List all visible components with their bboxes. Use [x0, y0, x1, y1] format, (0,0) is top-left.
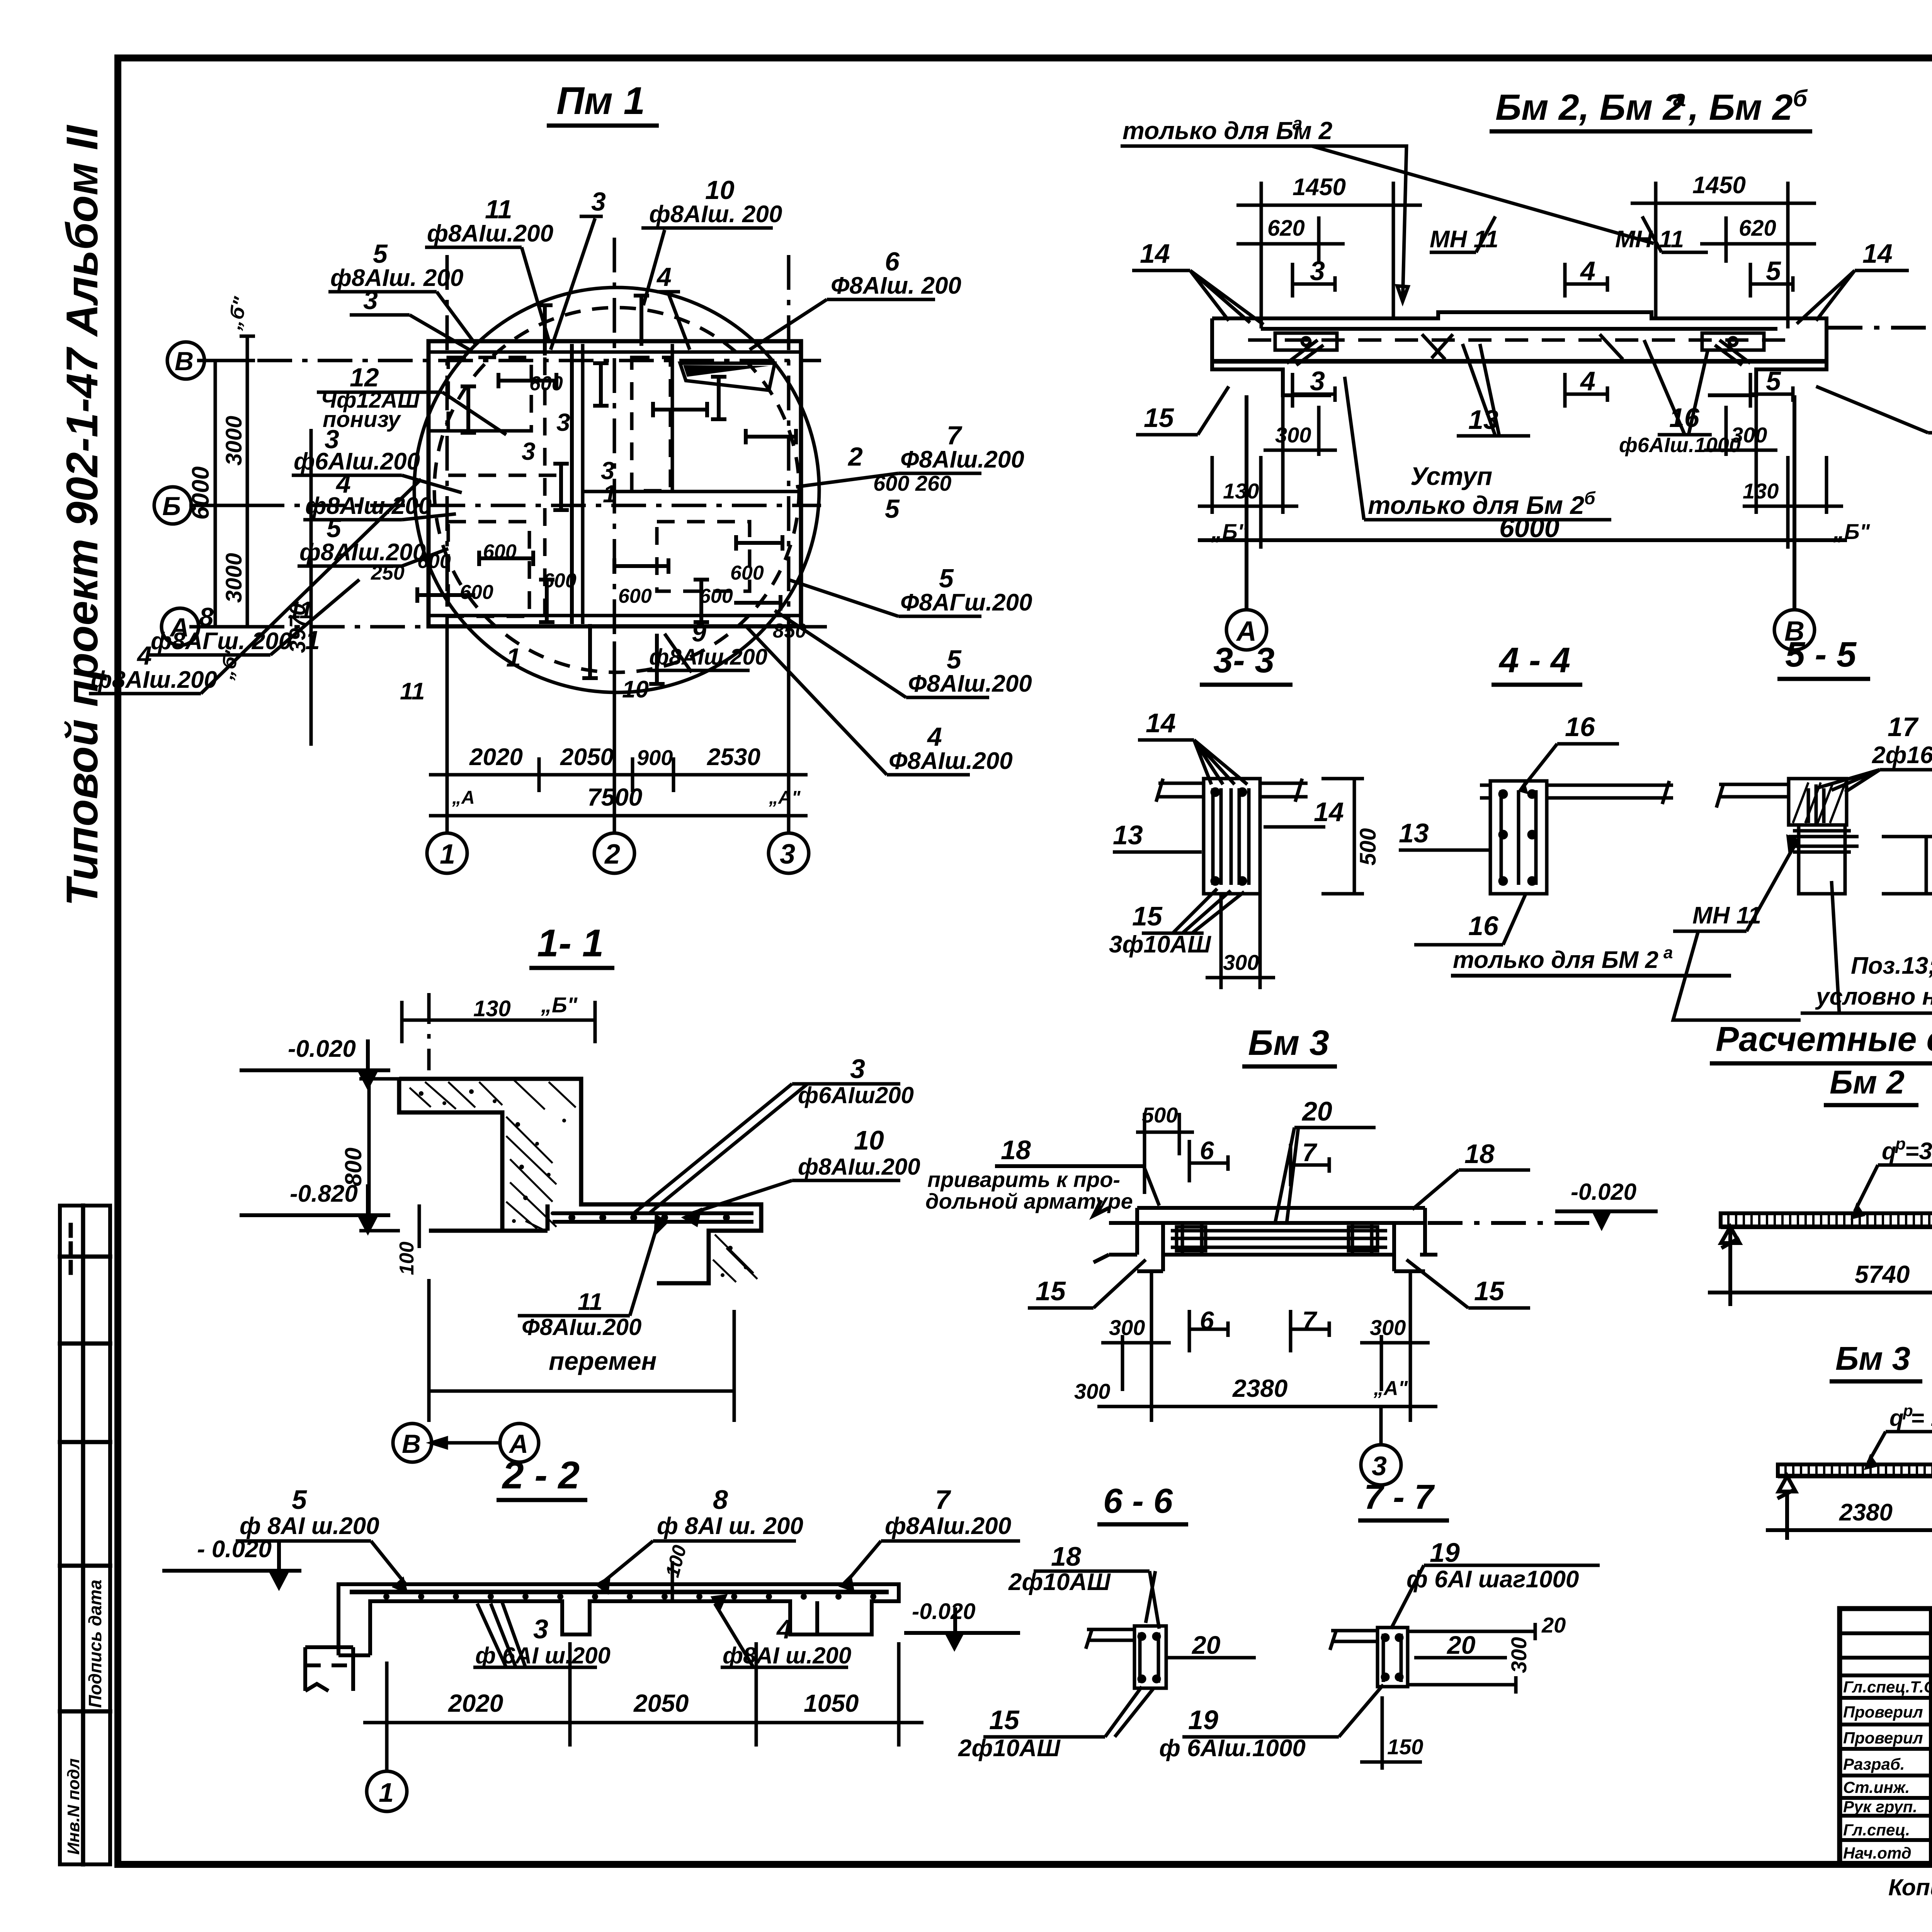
svg-text:3: 3 [522, 437, 536, 465]
svg-text:ф6АIш.1000: ф6АIш.1000 [1619, 434, 1741, 457]
svg-text:3: 3 [591, 187, 606, 216]
title block [1840, 1609, 1932, 1866]
svg-text:6: 6 [1200, 1136, 1214, 1165]
supports [1708, 1227, 1932, 1306]
svg-text:5 - 5: 5 - 5 [1785, 635, 1857, 674]
svg-text:=3,08т/пм.: =3,08т/пм. [1905, 1138, 1932, 1165]
svg-text:5: 5 [939, 564, 954, 593]
svg-text:4 - 4: 4 - 4 [1498, 641, 1570, 680]
svg-text:11: 11 [578, 1289, 602, 1315]
small pit box left [305, 1647, 353, 1691]
svg-text:5740: 5740 [1855, 1260, 1910, 1288]
svg-text:2ф10АШ: 2ф10АШ [958, 1735, 1061, 1762]
svg-text:7: 7 [1302, 1306, 1318, 1335]
svg-text:6 - 6: 6 - 6 [1103, 1482, 1173, 1520]
svg-text:15: 15 [1132, 901, 1163, 931]
svg-text:Гл.спец.: Гл.спец. [1843, 1821, 1910, 1839]
wall profile [399, 1079, 761, 1283]
svg-text:„А": „А" [1373, 1377, 1408, 1400]
svg-text:Инв.N подл: Инв.N подл [64, 1759, 83, 1855]
svg-text:ф6АIш.200: ф6АIш.200 [294, 448, 420, 475]
svg-text:2050: 2050 [633, 1689, 689, 1717]
svg-text:ф8АIш. 200: ф8АIш. 200 [649, 201, 782, 228]
dims [359, 1079, 419, 1248]
svg-text:13: 13 [1113, 820, 1143, 850]
svg-text:1: 1 [506, 643, 521, 672]
plan slab rect [429, 341, 801, 626]
svg-text:Нач.отд: Нач.отд [1843, 1844, 1912, 1862]
svg-text:5: 5 [292, 1485, 307, 1515]
svg-text:130: 130 [473, 996, 511, 1021]
svg-text:16: 16 [1565, 712, 1595, 742]
axis bubbles [154, 342, 809, 873]
svg-text:1: 1 [440, 839, 455, 870]
svg-text:14: 14 [1146, 708, 1176, 738]
svg-text:600: 600 [460, 581, 493, 604]
svg-text:18: 18 [1464, 1139, 1495, 1169]
svg-text:2 - 2: 2 - 2 [502, 1454, 580, 1497]
svg-text:Б: Б [162, 492, 181, 521]
svg-text:3: 3 [1310, 256, 1325, 286]
6000 dim [1198, 395, 1847, 610]
svg-text:р: р [1895, 1134, 1906, 1153]
svg-text:перемен: перемен [549, 1347, 656, 1375]
svg-text:ф8АIш.200: ф8АIш.200 [427, 220, 553, 247]
svg-text:4: 4 [776, 1614, 792, 1644]
svg-text:600: 600 [483, 541, 517, 563]
svg-text:В: В [175, 347, 194, 376]
svg-text:2380: 2380 [1232, 1374, 1287, 1402]
svg-text:7: 7 [947, 421, 963, 450]
svg-text:а: а [1293, 113, 1303, 133]
svg-text:Рук груп.: Рук груп. [1843, 1798, 1917, 1816]
300/130 dims [1198, 395, 1843, 549]
svg-text:5: 5 [1766, 366, 1781, 396]
svg-text:20: 20 [1446, 1631, 1476, 1659]
leader lines [89, 216, 989, 775]
svg-text:Бм 3: Бм 3 [1835, 1340, 1910, 1377]
svg-text:800: 800 [340, 1148, 366, 1186]
svg-text:18: 18 [1051, 1541, 1081, 1571]
svg-text:3: 3 [363, 286, 378, 315]
svg-text:7500: 7500 [587, 783, 642, 811]
inner dashed circle [434, 308, 799, 672]
svg-text:6: 6 [1200, 1306, 1214, 1335]
svg-text:4: 4 [927, 722, 942, 752]
section flags [1293, 263, 1793, 408]
svg-text:300: 300 [1109, 1315, 1145, 1340]
svg-text:1- 1: 1- 1 [537, 922, 604, 965]
svg-text:20: 20 [1191, 1631, 1221, 1659]
svg-text:600: 600 [730, 562, 764, 584]
svg-text:2020: 2020 [469, 744, 523, 770]
svg-text:15: 15 [1474, 1276, 1505, 1306]
dims [363, 1642, 923, 1770]
svg-text:ф8АIш.200: ф8АIш.200 [305, 493, 432, 519]
svg-text:6000: 6000 [1499, 513, 1560, 543]
svg-text:-0.020: -0.020 [288, 1036, 356, 1062]
axis lines dash-dot [189, 238, 827, 835]
5-5 [1716, 779, 1859, 894]
svg-text:300: 300 [1507, 1637, 1531, 1673]
svg-text:620: 620 [1267, 216, 1305, 241]
svg-text:ф 6АIш.1000: ф 6АIш.1000 [1159, 1735, 1306, 1762]
svg-text:600: 600 [543, 570, 577, 592]
svg-text:4: 4 [1580, 366, 1595, 396]
svg-text:3- 3: 3- 3 [1213, 641, 1275, 680]
section 2-2 [162, 1454, 1020, 1811]
svg-text:850: 850 [773, 620, 806, 642]
svg-text:15: 15 [989, 1705, 1020, 1735]
svg-text:5: 5 [373, 239, 388, 269]
svg-text:Ф8АIш.200: Ф8АIш.200 [900, 446, 1024, 473]
svg-text:ф 8АI ш. 200: ф 8АI ш. 200 [657, 1513, 803, 1539]
svg-text:600: 600 [529, 372, 563, 395]
svg-text:15: 15 [1144, 403, 1174, 433]
left dimension lines [207, 336, 311, 746]
svg-text:14: 14 [1140, 238, 1170, 269]
svg-text:Ф8АIш. 200: Ф8АIш. 200 [831, 272, 961, 299]
svg-text:5: 5 [1766, 256, 1781, 286]
svg-text:только для БМ 2: только для БМ 2 [1453, 947, 1658, 973]
bottom dimension lines [429, 641, 808, 833]
svg-text:3000: 3000 [221, 416, 247, 466]
svg-text:б: б [1584, 488, 1596, 508]
beam Bm3 detail [925, 1023, 1658, 1485]
svg-text:2020: 2020 [448, 1689, 503, 1717]
beam Bm2 elevation [1121, 85, 1932, 650]
svg-text:300: 300 [1275, 423, 1311, 447]
load strip [1721, 1213, 1932, 1227]
svg-text:2050: 2050 [560, 744, 614, 770]
svg-text:Подпись дата: Подпись дата [85, 1580, 105, 1708]
svg-text:б: б [1793, 85, 1808, 111]
svg-text:Расчетные схемы: Расчетные схемы [1716, 1020, 1932, 1059]
svg-text:4: 4 [1580, 256, 1595, 286]
svg-text:500: 500 [1142, 1103, 1178, 1127]
svg-text:ф8АIш.200: ф8АIш.200 [649, 645, 767, 670]
svg-text:1: 1 [379, 1777, 394, 1808]
svg-text:3: 3 [850, 1054, 865, 1084]
interior walls [570, 344, 574, 624]
small 600 dims inside [371, 372, 806, 642]
axis bubbles [1226, 610, 1815, 650]
svg-text:19: 19 [1188, 1705, 1218, 1735]
svg-text:Бм 3: Бм 3 [1248, 1023, 1329, 1063]
3-3 [1156, 779, 1308, 894]
svg-text:2ф16АI: 2ф16АI [1872, 742, 1932, 769]
svg-text:10: 10 [622, 676, 649, 703]
svg-text:100: 100 [396, 1242, 418, 1275]
svg-text:500: 500 [1355, 828, 1381, 866]
dimensions 1450/620 left [1236, 182, 1816, 328]
svg-text:ф8АIш. 200: ф8АIш. 200 [330, 265, 463, 291]
svg-text:Проверил: Проверил [1843, 1729, 1923, 1747]
svg-text:ф8АIш.200: ф8АIш.200 [885, 1513, 1011, 1539]
hatched wedge upper right [680, 363, 775, 390]
svg-text:ф6АIш200: ф6АIш200 [798, 1082, 914, 1108]
svg-text:300: 300 [1928, 849, 1932, 885]
svg-text:ф8АIш.200: ф8АIш.200 [91, 667, 217, 693]
svg-text:130: 130 [1223, 479, 1259, 503]
svg-text:Бм 2, Бм 2: Бм 2, Бм 2 [1495, 87, 1683, 128]
svg-text:ф 6АI шаг1000: ф 6АI шаг1000 [1406, 1566, 1579, 1593]
svg-text:10: 10 [854, 1125, 884, 1155]
svg-text:11: 11 [400, 678, 425, 705]
svg-text:8: 8 [199, 602, 214, 632]
svg-text:2530: 2530 [707, 744, 760, 770]
svg-text:10: 10 [705, 175, 735, 205]
svg-text:6: 6 [885, 247, 900, 276]
svg-text:9: 9 [692, 618, 706, 647]
leader labels around plan [91, 175, 1032, 774]
4-4 [1480, 781, 1673, 894]
svg-text:150: 150 [1387, 1735, 1423, 1759]
svg-text:Гл.спец.Т.О: Гл.спец.Т.О [1843, 1678, 1932, 1696]
stipple dots in concrete [419, 1089, 748, 1277]
svg-text:300: 300 [1370, 1315, 1406, 1340]
section flags 6 and 7 [1189, 1140, 1329, 1352]
svg-text:Ф8АIш.200: Ф8АIш.200 [908, 670, 1032, 697]
svg-text:Типовой проект 902-1-47 Аль: Типовой проект 902-1-47 Альбом II [58, 125, 107, 906]
tank circle [414, 287, 819, 692]
beam body [1094, 1200, 1437, 1271]
svg-text:15: 15 [1036, 1276, 1066, 1306]
svg-text:1450: 1450 [1692, 172, 1746, 199]
svg-text:„А": „А" [769, 787, 801, 808]
svg-text:20: 20 [1301, 1096, 1332, 1126]
svg-text:6000: 6000 [187, 466, 214, 520]
svg-text:2380: 2380 [1839, 1499, 1893, 1526]
svg-text:16: 16 [1468, 911, 1499, 941]
sections 3-3 4-4 5-5 [1109, 635, 1932, 1020]
svg-text:1050: 1050 [804, 1689, 859, 1717]
svg-text:-0.020: -0.020 [1571, 1179, 1636, 1205]
svg-text:2: 2 [847, 442, 863, 471]
svg-text:„Б": „Б" [541, 993, 578, 1017]
svg-text:, Бм 2: , Бм 2 [1688, 87, 1793, 128]
svg-text:Уступ: Уступ [1410, 462, 1492, 490]
svg-text:Ст.инж.: Ст.инж. [1843, 1778, 1910, 1796]
svg-text:Бм 2: Бм 2 [1830, 1064, 1905, 1101]
svg-text:условно не показаны: условно не показаны [1815, 983, 1932, 1010]
svg-text:„А: „А [452, 787, 475, 808]
svg-text:Проверил: Проверил [1843, 1703, 1923, 1721]
dashed inner outlines [448, 357, 531, 431]
svg-text:620: 620 [1739, 216, 1776, 241]
svg-text:300: 300 [1074, 1379, 1110, 1403]
svg-text:8: 8 [713, 1485, 728, 1515]
dims below [1097, 1271, 1437, 1422]
svg-text:Копировал Пихарева: Копировал Пихарева [1888, 1874, 1932, 1900]
svg-text:3: 3 [1372, 1451, 1387, 1481]
plan Pm1 [89, 79, 1032, 873]
svg-text:7: 7 [1302, 1138, 1318, 1167]
svg-text:-0.020: -0.020 [912, 1599, 975, 1624]
svg-text:а: а [1673, 85, 1686, 111]
svg-text:Ф8АIш.200: Ф8АIш.200 [522, 1314, 641, 1340]
svg-text:5: 5 [885, 494, 900, 524]
svg-text:1: 1 [305, 626, 320, 655]
svg-text:1450: 1450 [1293, 174, 1346, 201]
svg-text:3ф10АШ: 3ф10АШ [1109, 931, 1211, 958]
svg-text:Поз.13; 14: Поз.13; 14 [1851, 952, 1932, 979]
svg-text:19: 19 [1430, 1537, 1460, 1568]
left margin stamp strip [60, 1206, 110, 1864]
svg-text:130: 130 [1743, 479, 1779, 503]
slab rebar [553, 1213, 753, 1222]
beam outline [1212, 312, 1827, 395]
svg-text:Разраб.: Разраб. [1843, 1755, 1905, 1773]
svg-text:300: 300 [1731, 423, 1767, 447]
svg-text:3: 3 [556, 408, 570, 436]
svg-text:q: q [1882, 1138, 1896, 1165]
svg-text:18: 18 [1001, 1135, 1031, 1165]
svg-text:14: 14 [1314, 797, 1344, 827]
svg-text:900: 900 [637, 745, 673, 770]
svg-text:= 1.28т/пм.: = 1.28т/пм. [1911, 1405, 1932, 1431]
svg-text:q: q [1889, 1405, 1904, 1431]
svg-text:17: 17 [1888, 712, 1919, 742]
svg-text:ф8АIш.200: ф8АIш.200 [299, 539, 426, 566]
svg-text:7 - 7: 7 - 7 [1364, 1478, 1435, 1517]
sections 6-6 and 7-7 [904, 1478, 1600, 1770]
svg-text:3: 3 [1310, 366, 1325, 396]
svg-text:В: В [402, 1429, 421, 1459]
svg-text:2: 2 [604, 839, 620, 870]
svg-text:ф 8АI ш.200: ф 8АI ш.200 [240, 1513, 379, 1539]
svg-text:ф8АIш.200: ф8АIш.200 [798, 1154, 920, 1180]
svg-text:11: 11 [288, 597, 313, 624]
svg-text:а: а [1663, 943, 1673, 962]
slab with ribs [338, 1584, 899, 1655]
rebar tick symbols inside plan [417, 296, 796, 684]
svg-text:МН 11: МН 11 [1692, 902, 1761, 929]
svg-text:300: 300 [1223, 950, 1259, 975]
svg-text:Ф8АГш.200: Ф8АГш.200 [900, 589, 1032, 616]
svg-text:4: 4 [656, 262, 672, 292]
svg-text:13: 13 [1399, 818, 1429, 848]
signature rows [1843, 1678, 1932, 1862]
svg-text:20: 20 [1541, 1613, 1566, 1637]
design schemes [1708, 1020, 1932, 1540]
svg-text:- 0.020: - 0.020 [197, 1536, 272, 1563]
svg-text:5: 5 [327, 514, 342, 543]
svg-text:11: 11 [485, 195, 512, 224]
svg-text:3000: 3000 [221, 553, 247, 603]
svg-text:5: 5 [947, 645, 962, 674]
svg-text:1: 1 [603, 480, 617, 508]
svg-text:7: 7 [935, 1485, 951, 1515]
section 1-1 [240, 922, 920, 1462]
svg-text:3: 3 [780, 839, 795, 870]
svg-text:3: 3 [533, 1614, 548, 1644]
svg-text:14: 14 [1862, 238, 1893, 269]
svg-text:600: 600 [699, 585, 733, 607]
svg-text:Ф8АIш.200: Ф8АIш.200 [889, 748, 1013, 774]
svg-text:ф8АГш. 200: ф8АГш. 200 [151, 628, 292, 655]
svg-text:Пм 1: Пм 1 [556, 79, 645, 122]
svg-text:приварить к про-: приварить к про- [927, 1167, 1120, 1192]
svg-text:600: 600 [618, 585, 652, 607]
